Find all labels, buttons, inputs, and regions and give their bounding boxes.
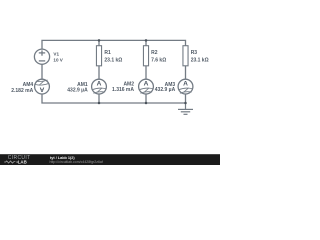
node R2-top: [145, 39, 148, 42]
svg-text:R3: R3: [191, 50, 198, 56]
ammeter AM2: [139, 79, 154, 94]
label R1: [104, 50, 122, 63]
svg-text:A: A: [39, 86, 44, 93]
wire V1 to AM4: [41, 64, 43, 79]
label R3: [191, 50, 209, 63]
label AM3: [155, 82, 176, 93]
ground: [178, 103, 193, 114]
voltage source V1: [34, 49, 49, 64]
wire top rail: [42, 40, 186, 49]
svg-text:R2: R2: [151, 50, 158, 56]
node AM1-bottom: [98, 102, 101, 105]
ammeter AM1: [92, 79, 107, 94]
label AM1: [67, 82, 88, 93]
label V1: [53, 51, 63, 62]
svg-text:1.316 mA: 1.316 mA: [112, 87, 134, 93]
footer logo resistor zigzag: [4, 161, 15, 163]
wire R2 top stub: [145, 40, 147, 45]
resistor R2: [143, 46, 148, 66]
wire AM1 to bottom rail: [98, 94, 100, 103]
svg-text:7.6 kΩ: 7.6 kΩ: [151, 57, 166, 63]
svg-text:432.9 µA: 432.9 µA: [67, 87, 88, 93]
svg-text:http://circuitlab.com/c4428fgr: http://circuitlab.com/c4428fgr2z6af: [50, 160, 103, 164]
resistor R3: [183, 46, 188, 66]
ammeter AM3: [178, 79, 193, 94]
wire R1 top stub: [98, 40, 100, 45]
wire R2 to AM2: [145, 66, 147, 79]
svg-text:▪LAB: ▪LAB: [16, 160, 27, 165]
footer bar: [0, 154, 220, 165]
node AM2-bottom: [145, 102, 148, 105]
svg-text:A: A: [144, 81, 149, 88]
wire R3 to AM3: [185, 66, 187, 79]
svg-text:10 V: 10 V: [53, 58, 63, 63]
wire R1 to AM1: [98, 66, 100, 79]
wire AM2 to bottom rail: [145, 94, 147, 103]
svg-text:2.182 mA: 2.182 mA: [11, 88, 33, 94]
svg-text:R1: R1: [104, 50, 111, 56]
label AM2: [112, 82, 134, 94]
label R2: [151, 50, 166, 63]
label AM4: [11, 82, 33, 94]
ammeter AM4: [35, 79, 50, 94]
svg-text:23.1 kΩ: 23.1 kΩ: [191, 57, 209, 63]
svg-text:432.9 µA: 432.9 µA: [155, 87, 176, 93]
resistor R1: [96, 46, 101, 66]
node ground: [184, 102, 187, 105]
node R1-top: [98, 39, 101, 42]
svg-text:A: A: [183, 81, 188, 88]
svg-text:V1: V1: [53, 51, 59, 56]
wire AM3 to ground node: [185, 94, 187, 103]
svg-text:23.1 kΩ: 23.1 kΩ: [104, 57, 122, 63]
svg-text:A: A: [97, 81, 102, 88]
wire bottom rail: [42, 94, 186, 103]
